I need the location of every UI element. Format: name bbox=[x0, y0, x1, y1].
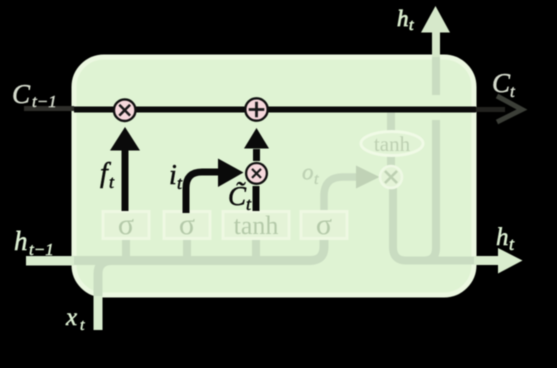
arrow f_t (forget) from sigma1 up to multiply bbox=[110, 127, 140, 211]
svg-text:t: t bbox=[80, 317, 85, 334]
label o_t (faded) bbox=[302, 160, 319, 189]
label f_t bbox=[100, 158, 115, 192]
arrowhead C_t output chevron bbox=[497, 96, 522, 122]
svg-text:tanh: tanh bbox=[374, 132, 411, 156]
wire h_t vertical branch up (below crossing gap) bbox=[424, 120, 436, 261]
svg-text:σ: σ bbox=[118, 208, 134, 241]
wire h bus (h_{t-1} input through gates) bbox=[26, 239, 324, 261]
label h_t right bbox=[496, 224, 515, 254]
gate box tanh (candidate) bbox=[223, 211, 289, 240]
wire tanh oval to output multiply bbox=[387, 155, 395, 167]
svg-text:o: o bbox=[302, 160, 314, 185]
svg-text:t: t bbox=[314, 171, 319, 188]
wire x_t input branch bbox=[98, 261, 112, 331]
label h_t top bbox=[397, 6, 414, 34]
label x_t bbox=[65, 304, 85, 334]
label C tilde_t (candidate) bbox=[228, 181, 252, 214]
wire stub sigma1 to bus bbox=[122, 238, 130, 258]
arrow h_t right output bbox=[474, 248, 523, 274]
svg-text:h: h bbox=[14, 226, 28, 256]
svg-text:C: C bbox=[12, 79, 31, 109]
svg-text:h: h bbox=[397, 6, 409, 31]
gate box sigma3 (output gate) bbox=[301, 208, 347, 241]
svg-text:x: x bbox=[65, 304, 77, 331]
wire output gate o_t curve with arrowhead bbox=[324, 166, 380, 213]
multiply circle candidate (pink) bbox=[246, 163, 267, 184]
cell state line C bbox=[24, 109, 505, 110]
label h_{t-1} bbox=[14, 226, 54, 259]
wire stub tanh gate to bus bbox=[252, 238, 260, 258]
label C_{t-1} bbox=[12, 79, 57, 111]
svg-text:C: C bbox=[492, 68, 511, 98]
arrow i_t (input) curved into candidate multiply bbox=[186, 159, 244, 214]
plus circle (pink) bbox=[245, 98, 267, 120]
svg-text:t−1: t−1 bbox=[29, 240, 54, 259]
arrow h_t top output bbox=[421, 6, 450, 57]
svg-text:h: h bbox=[496, 224, 509, 251]
svg-text:tanh: tanh bbox=[234, 211, 279, 240]
arrow candidate multiply up to plus bbox=[244, 128, 269, 161]
wire tanh gate up to candidate multiply bbox=[253, 186, 260, 211]
wire stub sigma2 to bus bbox=[183, 238, 191, 258]
output multiply circle (faded) bbox=[380, 166, 402, 188]
multiply circle forget (pink) bbox=[114, 99, 136, 121]
svg-text:C̃: C̃ bbox=[228, 181, 247, 211]
tanh oval (output squash) bbox=[361, 132, 423, 157]
wire h_{t-1} outside segment bbox=[26, 257, 74, 266]
LSTM cell body bbox=[74, 57, 474, 295]
label i_t bbox=[169, 160, 183, 193]
gate box sigma2 (input gate) bbox=[164, 208, 210, 241]
svg-text:i: i bbox=[169, 160, 177, 191]
label C_t bbox=[492, 68, 516, 101]
svg-text:σ: σ bbox=[316, 208, 332, 241]
svg-text:t: t bbox=[409, 17, 414, 34]
gate box sigma1 (forget gate) bbox=[103, 208, 149, 241]
wire h_t vertical branch up (above crossing gap) bbox=[432, 57, 440, 95]
wire output multiply down and right to h output bbox=[393, 188, 476, 261]
svg-text:t−1: t−1 bbox=[32, 92, 57, 111]
wire cell state to tanh oval bbox=[387, 112, 395, 132]
